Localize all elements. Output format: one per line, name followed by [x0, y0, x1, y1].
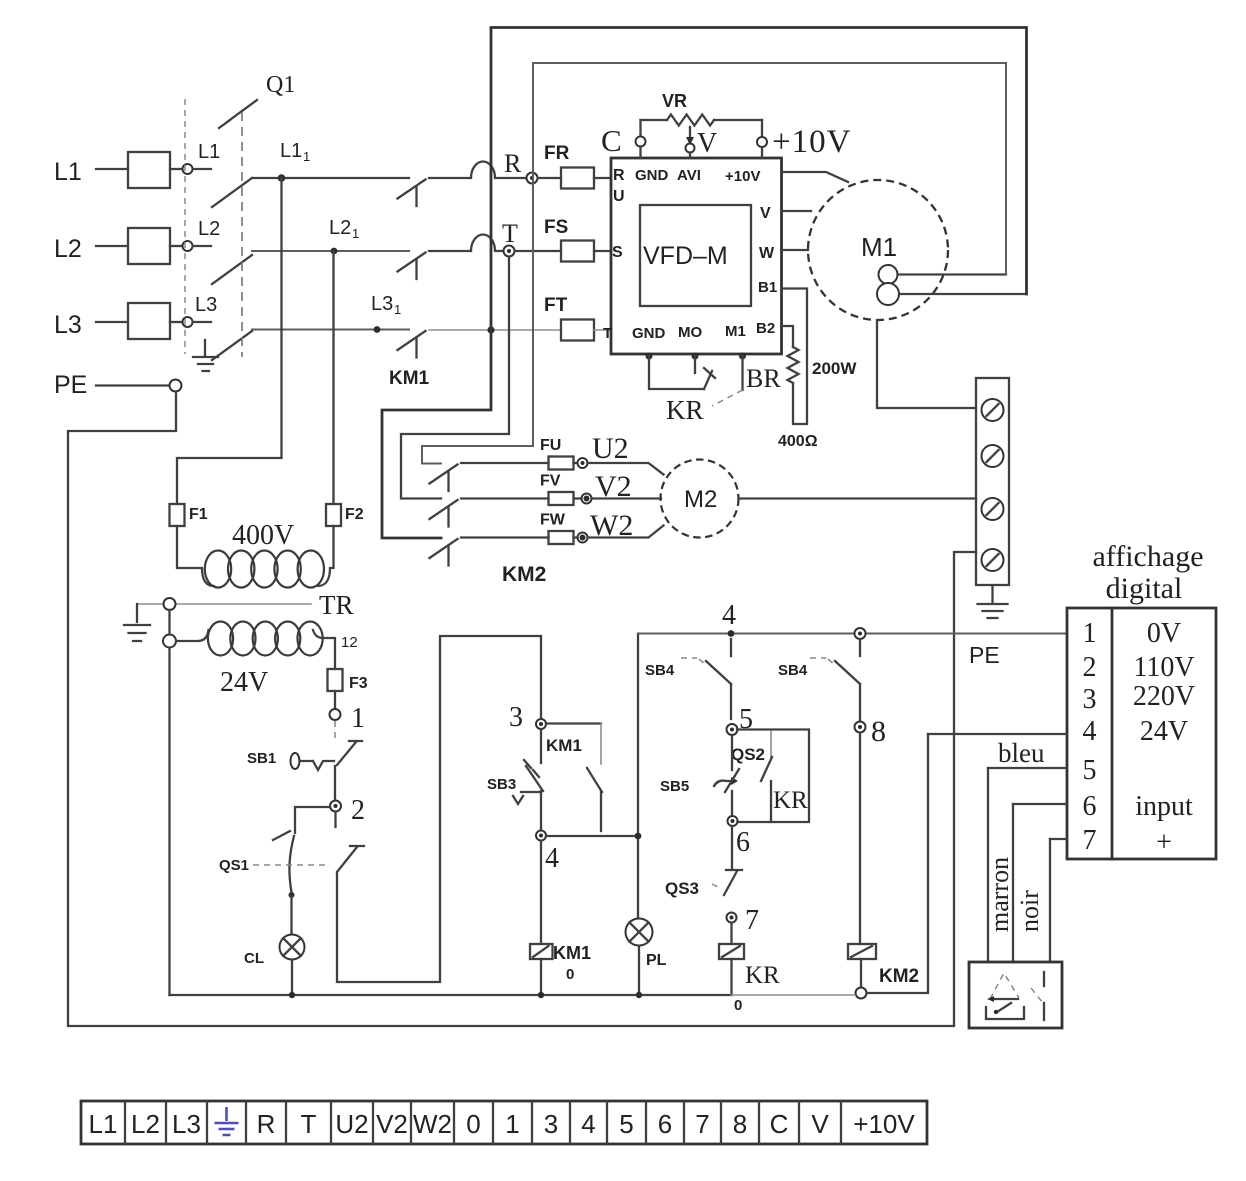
svg-text:U2: U2: [592, 432, 629, 465]
svg-text:400V: 400V: [232, 520, 294, 551]
svg-text:0: 0: [466, 1109, 480, 1139]
svg-text:KM2: KM2: [502, 563, 546, 586]
svg-text:V: V: [811, 1109, 829, 1139]
terminal strip divider: [206, 1101, 208, 1144]
wire CL to bus 0: [291, 960, 293, 996]
wire node2 left branch: [295, 807, 330, 833]
svg-text:KM1: KM1: [546, 736, 582, 755]
motor M1 dashed circle: [808, 180, 948, 320]
svg-text:bleu: bleu: [998, 738, 1045, 768]
wire PE loop (left and bottom and right riser): [68, 392, 976, 1027]
node dot SB4 left branch: [728, 630, 735, 637]
svg-text:110V: 110V: [1133, 652, 1194, 683]
svg-text:L2: L2: [54, 235, 82, 263]
terminal circle U2: [578, 458, 588, 468]
node M1 bottom pin: [739, 353, 746, 360]
svg-text:L3: L3: [172, 1109, 201, 1139]
wire SB1 to node 2: [334, 766, 336, 800]
wire L2 stub: [193, 245, 211, 247]
contactor KM1 main contact phase S: [398, 253, 426, 272]
wire M2 to terminal block: [739, 497, 977, 499]
limit switch SB5: [731, 735, 733, 770]
node 3 circled: [536, 719, 546, 729]
svg-text:T: T: [502, 219, 518, 248]
wire node 4 down to KM1 coil: [540, 841, 542, 944]
svg-text:FU: FU: [540, 437, 561, 454]
fuse F3: [328, 669, 343, 691]
wire secondary coil to net 12: [313, 630, 335, 669]
svg-text:SB4: SB4: [778, 662, 808, 679]
switch Q1 pole L3 blade: [212, 331, 252, 360]
svg-text:W: W: [759, 245, 775, 262]
secondary terminal circle lower: [163, 635, 176, 648]
svg-text:L1: L1: [280, 140, 302, 162]
fuse F2: [326, 504, 341, 526]
svg-text:U2: U2: [335, 1109, 368, 1139]
svg-text:400Ω: 400Ω: [778, 433, 818, 450]
node 4 circled: [536, 831, 546, 841]
ground symbol at TR secondary: [124, 604, 150, 641]
svg-text:FS: FS: [544, 217, 568, 238]
wire QS1 pole2 down and around to node 3: [337, 636, 541, 982]
screw terminal: [982, 445, 1004, 467]
wire B1 to brake resistor: [782, 289, 808, 425]
svg-text:8: 8: [733, 1109, 747, 1139]
svg-text:R: R: [504, 149, 522, 178]
svg-text:QS1: QS1: [219, 857, 249, 874]
M1 terminal circle lower: [877, 283, 899, 305]
svg-text:PL: PL: [646, 952, 667, 969]
motor M2 dashed circle: [661, 460, 739, 538]
svg-text:U: U: [613, 188, 625, 205]
wire M1 pin stub: [741, 356, 743, 390]
terminal strip earth symbol: [215, 1107, 239, 1135]
wire F1 to primary coil: [177, 526, 214, 586]
junction dot phase T / brake wire: [487, 326, 494, 333]
svg-text:1: 1: [351, 703, 365, 734]
screw terminal: [982, 399, 1004, 421]
terminal circle L1: [183, 164, 193, 174]
dashed leader to KR label: [712, 390, 743, 406]
transformer core line: [138, 603, 311, 605]
resistor VR: [641, 119, 668, 121]
svg-text:T: T: [603, 325, 612, 342]
wire phase R (L1 to VFD R): [252, 177, 409, 179]
wire SB5 to node 6: [731, 791, 733, 815]
pushbutton SB4 (right): [859, 639, 861, 656]
wire M1 frame to terminal block: [877, 321, 976, 409]
wire pin 7: [1050, 838, 1067, 840]
contactor KM1 main contact phase T: [398, 331, 426, 350]
screw terminal: [982, 549, 1004, 571]
wire node 7 to KR coil: [730, 923, 732, 944]
wire L1 fuse to terminal: [170, 168, 182, 170]
terminal T circled: [504, 246, 515, 257]
svg-text:C: C: [770, 1109, 789, 1139]
svg-text:R: R: [613, 167, 625, 184]
svg-text:marron: marron: [985, 857, 1014, 932]
svg-text:L2: L2: [329, 217, 351, 239]
svg-text:TR: TR: [319, 590, 354, 620]
wire L3 input: [96, 321, 128, 323]
fuse L2 input: [128, 228, 170, 264]
wire L1_1 branch down to F1: [177, 178, 282, 504]
fuse L1 input: [128, 152, 170, 188]
wire sensor marron riser: [1012, 804, 1014, 962]
svg-text:L3: L3: [54, 311, 82, 339]
wire KM2 bottom to pin 4 riser: [867, 734, 929, 993]
svg-text:KM2: KM2: [879, 966, 919, 987]
wire L2 fuse to terminal: [170, 245, 182, 247]
svg-text:5: 5: [1083, 755, 1097, 786]
svg-text:3: 3: [509, 702, 523, 733]
node 7 circled: [727, 913, 737, 923]
svg-text:SB1: SB1: [247, 750, 276, 767]
svg-text:L2: L2: [131, 1109, 160, 1139]
terminal strip divider: [683, 1101, 685, 1144]
terminal strip divider: [531, 1101, 533, 1144]
fuse FS: [515, 250, 562, 252]
op-amp/drive VFD-M outer box: [611, 158, 782, 354]
svg-text:affichage: affichage: [1092, 540, 1203, 573]
wire VFD W output to M1: [782, 249, 809, 251]
sensor switch contact: [1043, 972, 1045, 986]
junction dot QS1: [289, 892, 295, 898]
svg-text:FT: FT: [544, 295, 568, 316]
VR wiper arrow to AVI: [689, 127, 691, 143]
svg-text:M2: M2: [684, 486, 717, 513]
wire between secondary terminals: [168, 610, 170, 635]
wire node 8 to KM2 coil: [859, 733, 861, 944]
wire phase R with hop over vertical: [429, 162, 526, 179]
terminal circle L3: [183, 317, 193, 327]
wire W2 to M2: [588, 526, 664, 538]
wire 0V rail (secondary to bottom bus): [168, 648, 170, 996]
wire L1 input: [96, 168, 128, 170]
node L1_1: [278, 174, 286, 182]
switch Q1 handle: [219, 100, 257, 128]
svg-text:QS3: QS3: [665, 879, 699, 898]
svg-text:input: input: [1135, 791, 1193, 822]
terminal strip divider: [492, 1101, 494, 1144]
svg-text:M1: M1: [861, 232, 897, 262]
terminal circle PE: [170, 380, 182, 392]
svg-text:200W: 200W: [812, 359, 857, 378]
terminal strip divider: [285, 1101, 287, 1144]
terminal strip divider: [840, 1101, 842, 1144]
svg-text:4: 4: [545, 843, 559, 874]
fuse L3 input: [128, 303, 170, 339]
wire node 4 to PL branch: [546, 835, 637, 837]
svg-text:VR: VR: [662, 91, 687, 111]
svg-text:V2: V2: [376, 1109, 408, 1139]
wire VFD V output to M1: [782, 210, 812, 212]
svg-text:M1: M1: [725, 323, 746, 340]
svg-text:KR: KR: [666, 395, 704, 425]
svg-text:7: 7: [745, 905, 759, 936]
M1 terminal circle upper: [879, 265, 898, 284]
svg-text:CL: CL: [244, 950, 264, 967]
svg-text:GND: GND: [632, 325, 666, 342]
svg-text:8: 8: [871, 715, 886, 748]
svg-text:L2: L2: [198, 218, 220, 240]
pushbutton SB4 (left): [730, 639, 732, 656]
relay contact KR parallel branch: [737, 730, 809, 823]
pushbutton SB1 dashed stub: [334, 721, 336, 741]
node 8 circled: [855, 722, 866, 733]
terminal strip divider: [720, 1101, 722, 1144]
svg-text:7: 7: [1083, 825, 1097, 856]
svg-text:4: 4: [722, 600, 736, 631]
fuse F1: [170, 504, 185, 526]
svg-text:0: 0: [566, 966, 574, 983]
fuse FR: [538, 177, 561, 179]
wire phase T branch (T terminal to KM2 V2 contact): [401, 257, 509, 499]
coil KM2: [848, 944, 876, 959]
pushbutton SB3: [540, 729, 542, 763]
switch Q1 pole L1 blade: [212, 178, 252, 207]
svg-text:L1: L1: [198, 141, 220, 163]
terminal strip divider: [758, 1101, 760, 1144]
wire PE input: [96, 384, 169, 386]
terminal strip divider: [124, 1101, 126, 1144]
svg-text:L3: L3: [195, 294, 217, 316]
svg-text:V: V: [760, 205, 771, 222]
svg-text:F3: F3: [349, 675, 368, 692]
svg-text:S: S: [612, 244, 623, 261]
junction dot PL/node4: [635, 833, 642, 840]
svg-text:SB4: SB4: [645, 662, 675, 679]
wire F3 to node 1: [334, 691, 336, 709]
ground symbol PE at block: [978, 585, 1008, 618]
wire L2_1 branch down to F2: [332, 251, 334, 504]
svg-text:12: 12: [341, 634, 358, 651]
wire phase T (L3 to VFD T): [252, 329, 409, 331]
svg-text:W2: W2: [413, 1109, 452, 1139]
thermal contact QS3: [731, 826, 733, 869]
transformer TR secondary coil 24V: [208, 622, 233, 656]
wire KM1 coil to bus: [540, 959, 542, 995]
proximity sensor box: [969, 962, 1062, 1028]
wire L1 stub: [193, 168, 211, 170]
svg-text:1: 1: [394, 302, 401, 317]
affichage digital box: [1067, 608, 1216, 859]
contactor KM2 contact V2 row: [430, 500, 458, 519]
wire bus 0: [170, 994, 732, 996]
svg-text:L1: L1: [89, 1109, 118, 1139]
svg-text:PE: PE: [54, 371, 87, 399]
svg-text:B1: B1: [758, 279, 777, 296]
wire sensor noir riser: [1049, 839, 1051, 962]
wire fuse FW to terminal: [574, 536, 578, 538]
junction dot PL: [636, 992, 642, 998]
wire sensor bleu riser: [987, 768, 989, 962]
svg-text:4: 4: [581, 1109, 595, 1139]
wire QS1 to lamp CL: [290, 896, 292, 935]
node 1 circle: [330, 709, 341, 720]
svg-text:+: +: [1156, 827, 1172, 858]
wire primary coil to F2: [318, 526, 334, 586]
ground symbol at Q1: [193, 340, 218, 371]
wire net4 riser for PL and pin1: [637, 634, 639, 919]
svg-text:3: 3: [1083, 684, 1097, 715]
svg-text:24V: 24V: [1140, 716, 1188, 747]
svg-text:T: T: [301, 1109, 317, 1139]
svg-text:AVI: AVI: [677, 167, 701, 184]
wire SB4 to node 5: [730, 684, 732, 719]
svg-text:GND: GND: [635, 167, 669, 184]
svg-text:SB3: SB3: [487, 776, 516, 793]
Q1 linkage dashed line: [241, 112, 243, 357]
svg-text:+10V: +10V: [853, 1109, 915, 1139]
svg-text:L3: L3: [371, 293, 393, 315]
terminal strip divider: [645, 1101, 647, 1144]
terminal circle V2: [582, 494, 592, 504]
svg-text:noir: noir: [1015, 890, 1044, 932]
svg-text:1: 1: [505, 1109, 519, 1139]
node 6 circled: [728, 816, 738, 826]
svg-text:QS2: QS2: [731, 745, 765, 764]
svg-text:V: V: [697, 128, 717, 159]
fuse FV: [549, 492, 574, 505]
node 5 circled: [727, 724, 738, 735]
svg-text:5: 5: [619, 1109, 633, 1139]
svg-text:SB5: SB5: [660, 778, 689, 795]
svg-text:24V: 24V: [220, 667, 268, 698]
svg-text:F1: F1: [189, 506, 208, 523]
svg-text:2: 2: [351, 795, 365, 826]
wire SB4 to node 8: [859, 684, 861, 721]
junction dot KM1: [538, 992, 544, 998]
wire M1 lower terminal to outer frame: [899, 293, 1027, 295]
wire fuse FU to terminal: [574, 462, 578, 464]
wire KR coil to bus: [730, 959, 732, 995]
contactor KM1 aux contact branch: [546, 722, 601, 724]
resistor BR: [788, 347, 799, 383]
wire phase T to FT: [429, 329, 561, 331]
svg-text:FV: FV: [540, 473, 561, 490]
wire inner frame loop (M1 upper terminal to KM2 U2 contact): [422, 63, 1006, 464]
transformer TR primary coil 400V: [205, 551, 231, 588]
wire to fuse FW: [461, 536, 549, 538]
svg-text:KM1: KM1: [553, 943, 591, 963]
relay contact KR (GND-MO): [649, 356, 704, 389]
coil KM1: [530, 944, 553, 959]
terminal strip divider: [245, 1101, 247, 1144]
terminal strip outline: [81, 1101, 927, 1144]
wire U2 to M2: [588, 463, 664, 475]
wire secondary terminal to coil: [176, 630, 209, 641]
svg-text:F2: F2: [345, 506, 364, 523]
wire KM2 coil to bus circle: [860, 959, 862, 988]
coil KR: [719, 944, 744, 959]
affichage divider: [1111, 608, 1114, 859]
QS1 linkage dashed: [253, 864, 330, 866]
svg-text:C: C: [601, 123, 622, 158]
screw terminal: [982, 498, 1004, 520]
svg-text:L1: L1: [54, 158, 82, 186]
sensor symbol (dashed head + bracket): [990, 973, 1019, 999]
wire outer frame loop (M1 lower terminal to KM2 W2 contact): [382, 28, 1027, 539]
svg-text:KM1: KM1: [389, 368, 430, 389]
svg-text:220V: 220V: [1133, 681, 1195, 712]
secondary terminal circle upper: [164, 598, 176, 610]
wire V2 to M2: [592, 497, 662, 499]
svg-text:R: R: [257, 1109, 276, 1139]
wire SB3 to node 4: [540, 791, 542, 830]
svg-text:1: 1: [303, 149, 310, 164]
wire L3 stub: [193, 321, 211, 323]
wire phase S (L2 to VFD S): [252, 250, 409, 252]
wire L2 input: [96, 245, 128, 247]
svg-text:0: 0: [734, 997, 742, 1014]
svg-text:KR: KR: [773, 787, 808, 814]
wire PL to bus 0: [638, 946, 640, 995]
terminal strip divider: [165, 1101, 167, 1144]
wire fuse FV to terminal: [574, 497, 582, 499]
wire pin 5 (bleu): [988, 767, 1067, 769]
fuse FU: [549, 457, 574, 470]
fuse-switch linkage dashed line: [184, 99, 186, 354]
svg-text:1: 1: [1083, 618, 1097, 649]
node GND bottom pin: [646, 353, 653, 360]
lamp CL: [280, 935, 305, 960]
wire to fuse FU: [461, 462, 549, 464]
svg-text:FR: FR: [544, 143, 570, 164]
svg-text:7: 7: [695, 1109, 709, 1139]
wire B2 to brake resistor: [782, 326, 794, 347]
fuse FT: [561, 320, 594, 341]
svg-text:Q1: Q1: [266, 72, 295, 98]
terminal circle L2: [183, 241, 193, 251]
wire phase S with hop: [429, 235, 503, 251]
svg-text:2: 2: [1083, 652, 1097, 683]
terminal block (4 screws): [976, 378, 1009, 585]
contactor KM1 main contact phase R: [398, 180, 426, 199]
wire M1 upper terminal to inner frame: [898, 273, 1007, 275]
svg-text:6: 6: [736, 827, 750, 858]
contactor KM2 contact W2 row: [430, 539, 458, 558]
node 2 circled: [330, 801, 341, 812]
node L2_1: [331, 248, 338, 255]
wire pin 4 (24V): [928, 733, 1067, 735]
svg-text:+10V: +10V: [725, 168, 760, 185]
wire VFD U output to M1: [782, 172, 849, 182]
svg-text:MO: MO: [678, 324, 702, 341]
terminal strip divider: [569, 1101, 571, 1144]
terminal strip divider: [410, 1101, 412, 1144]
terminal +10V circle: [761, 120, 763, 137]
fuse FW: [549, 531, 574, 544]
pushbutton SB1 actuator: [291, 753, 300, 769]
lamp PL: [626, 919, 653, 946]
wire L3 fuse to terminal: [170, 321, 182, 323]
svg-text:0V: 0V: [1147, 618, 1181, 649]
wire to fuse FV: [461, 497, 549, 499]
svg-text:6: 6: [1083, 791, 1097, 822]
svg-text:VFD–M: VFD–M: [643, 242, 728, 270]
svg-text:BR: BR: [746, 364, 781, 393]
svg-text:1: 1: [352, 226, 359, 241]
terminal strip divider: [798, 1101, 800, 1144]
circle node KM2 bottom: [856, 988, 867, 999]
wire net 4 horizontal (to affichage pin 1): [638, 633, 1067, 635]
svg-text:4: 4: [1083, 716, 1097, 747]
circled node SB4 right branch: [855, 628, 866, 639]
svg-text:digital: digital: [1106, 572, 1183, 605]
terminal circle W2: [578, 533, 588, 543]
svg-text:6: 6: [658, 1109, 672, 1139]
